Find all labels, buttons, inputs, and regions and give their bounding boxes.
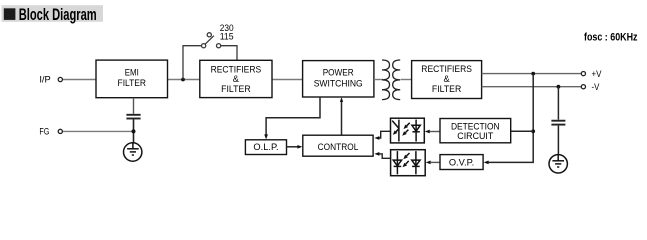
wire EMI bottom riser [133,98,135,114]
svg-text:RECTIFIERS: RECTIFIERS [421,64,472,74]
block DETECTION CIRCUIT [440,119,511,143]
block O.L.P. [245,140,286,155]
wire O.L.P. to control [287,146,299,148]
block CONTROL [303,135,373,156]
svg-text:RECTIFIERS: RECTIFIERS [211,64,262,74]
PC1 LED [412,120,420,142]
terminal I/P [58,77,62,81]
terminal +V [581,72,585,76]
wire transformer to rectifiers2 stub [401,79,412,81]
svg-text:FILTER: FILTER [432,84,462,94]
PC2 LED [412,151,420,174]
ground earth output [549,155,567,173]
arrow into optocoupler1 right [425,130,430,134]
node FG junction [132,129,136,133]
svg-text:fosc : 60KHz: fosc : 60KHz [584,32,638,44]
wire control to power switching [341,102,343,136]
svg-text:DETECTION: DETECTION [451,121,500,131]
svg-text:FILTER: FILTER [221,84,251,94]
node junction detection line [531,129,535,133]
optocoupler PC2 [391,150,426,176]
wire -V output rail [482,86,582,88]
wire switch riser left [183,46,202,80]
block EMI FILTER [96,60,168,98]
arrow into power switching bottom [340,97,343,102]
capacitor C1 line filter [126,115,140,119]
wire EMI to rectifiers [168,79,200,81]
wire detection circuit to feedback drop [511,130,534,132]
node junction on input rail [181,78,185,82]
terminal -V [581,85,585,89]
PC1 phototransistor [392,120,399,142]
wire +V output rail [482,73,582,75]
svg-text:CONTROL: CONTROL [318,142,359,152]
node junction -V rail [557,85,561,89]
block O.V.P. [440,155,483,170]
PC2 light arrows [407,153,410,156]
svg-text:EMI: EMI [125,67,139,77]
svg-text:&: & [443,74,450,84]
node junction +V rail [531,72,535,76]
svg-text:SWITCHING: SWITCHING [314,78,363,88]
arrow into control left [297,145,302,149]
wire FG to cap junction [62,130,133,132]
svg-text:O.L.P.: O.L.P. [253,142,278,152]
svg-text:CIRCUIT: CIRCUIT [457,131,493,141]
svg-text:O.V.P.: O.V.P. [449,157,474,167]
wire power switching to O.L.P. [266,97,320,137]
switch SW1 115/230 selector [202,33,221,48]
arrow into control right lower [374,152,379,156]
wire I/P to EMI filter [62,79,96,81]
ground earth FG [124,143,142,161]
transformer T1 secondary winding [393,60,401,100]
wire optocoupler2 to control [379,154,391,158]
wire capacitor to earth [557,126,559,155]
block POWER SWITCHING [303,61,374,97]
svg-text:FG: FG [39,127,49,137]
block RECTIFIERS & FILTER primary [200,60,272,97]
wire switch to rectifiers top [221,46,237,61]
svg-text:115: 115 [220,32,234,42]
wire power switching to transformer stub [374,79,383,81]
wire capacitor to FG junction and earth [133,120,135,144]
svg-text:Block Diagram: Block Diagram [19,6,97,24]
svg-text:POWER: POWER [323,68,354,78]
arrow into O.V.P. right [484,161,489,165]
wire rectifiers to power switching [272,79,303,81]
optocoupler PC1 [391,118,425,143]
wire optocoupler1 to control [379,131,391,138]
terminal FG [58,129,62,133]
svg-text:FILTER: FILTER [118,78,147,88]
svg-text:-V: -V [592,82,600,92]
wire -V riser to capacitor [557,87,559,120]
transformer T1 primary winding [382,60,390,100]
arrow into control right upper [374,136,379,140]
block RECTIFIERS & FILTER secondary [412,61,482,99]
arrow into optocoupler2 right [426,161,431,165]
PC2 photodiode [393,151,401,174]
svg-text:I/P: I/P [39,74,50,84]
wire OVP to optocoupler2 [431,161,440,163]
PC1 light arrows [407,123,410,126]
title bar [2,5,104,22]
arrow into O.L.P. top [264,134,268,139]
wire feedback drop from +V rail [488,74,533,163]
wire detection to optocoupler1 [430,131,440,133]
svg-text:&: & [233,74,240,84]
capacitor C2 output [551,121,565,125]
svg-text:+V: +V [592,69,603,79]
title square bullet [4,8,16,20]
